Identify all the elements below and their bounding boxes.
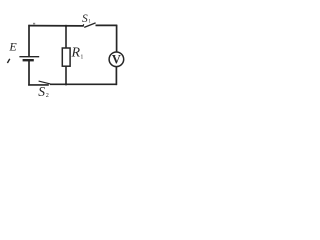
svg-text:E: E: [8, 40, 17, 54]
svg-text:S: S: [38, 84, 45, 99]
junction dot bottom of middle branch: [65, 83, 67, 85]
battery E short plate: [23, 59, 34, 61]
wire bottom-right segment: [50, 83, 117, 85]
svg-text:R: R: [71, 46, 81, 61]
switch S1: [83, 23, 95, 28]
wire right vertical lower: [115, 67, 117, 85]
label R1: [71, 46, 84, 61]
svg-text:S: S: [82, 13, 88, 25]
svg-text:2: 2: [46, 92, 49, 99]
voltmeter V circle: [109, 52, 124, 67]
label S1: [82, 13, 91, 25]
label r (internal resistance mark): [7, 59, 9, 63]
wire top-right segment: [96, 24, 118, 26]
switch S2 blade: [39, 81, 51, 84]
junction dot top of middle branch: [65, 25, 67, 27]
wire middle branch upper: [65, 25, 67, 48]
label S2: [38, 84, 49, 99]
wire left vertical upper: [28, 25, 30, 57]
battery E long plate: [19, 56, 39, 58]
stray scan mark above top wire: [33, 23, 35, 25]
resistor R1 box: [62, 48, 70, 66]
svg-text:1: 1: [88, 20, 91, 25]
svg-text:V: V: [112, 53, 121, 67]
svg-text:1: 1: [80, 54, 83, 60]
wire top-left segment: [28, 25, 83, 27]
wire left vertical lower: [28, 60, 30, 85]
wire right vertical upper: [116, 25, 118, 52]
wire middle branch lower: [65, 66, 67, 85]
wire bottom-left segment: [28, 84, 49, 86]
